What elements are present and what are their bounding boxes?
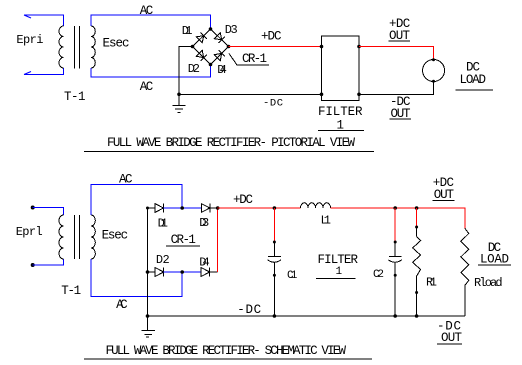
DC load circle [423,60,445,82]
wire: primary bottom lead [24,68,63,75]
wire: -DC bus to filter [179,93,322,95]
node: +DC junction at bridge output [216,206,220,210]
wire: left bus connecting rows down to ground [147,208,149,316]
node: C1 top junction [273,206,277,210]
node: filter input + [320,45,324,49]
svg-text:OUT: OUT [434,188,455,202]
svg-text:D1: D1 [158,217,168,231]
underline OUT bottom-right [437,343,462,345]
svg-text:FILTER: FILTER [318,105,363,119]
node: bridge bottom corner [209,63,213,67]
svg-text:CR-1: CR-1 [171,233,196,247]
leader line for CR-1 [229,54,269,66]
diode D1 bottom-section [155,204,164,213]
node: bridge top corner [209,27,213,31]
svg-text:D4: D4 [199,256,210,270]
svg-text:Epri: Epri [16,33,43,47]
node: row1 AC junction [180,206,184,210]
wire: +DC out red to load [359,47,434,60]
wire: row2 cathode lead [210,271,218,273]
node: bridge right corner [227,45,231,49]
transformer T-1 primary winding [59,26,63,68]
underline OUT top [389,40,411,42]
node: C2 bottom junction [393,314,397,318]
filter box [322,36,360,101]
node: primary bottom terminal dot [31,263,35,267]
svg-text:OUT: OUT [441,331,462,345]
diode D1 (left corner to top corner) [196,32,206,43]
underline CR-1 [166,245,200,247]
svg-text:C2: C2 [373,269,384,281]
svg-text:R1: R1 [426,276,437,290]
underline OUT bottom [390,118,412,120]
wire: primary top lead [24,15,63,26]
capacitor C2 [394,208,396,242]
wire: row2 anode lead [148,271,156,273]
transformer T-1 primary winding bottom [59,215,63,259]
wire: AC bottom from secondary to bridge [91,65,211,78]
diode D3 bottom-section [201,204,210,213]
svg-text:FULL WAVE BRIDGE RECTIFIER- PI: FULL WAVE BRIDGE RECTIFIER- PICTORIAL VI… [107,136,355,150]
node: ground junction [177,93,181,97]
wire: +DC rail to L1 [218,207,301,209]
svg-text:Esec: Esec [102,229,129,243]
svg-text:AC: AC [116,298,128,312]
wire: AC bottom to bridge row 2 [91,259,182,297]
svg-text:FULL WAVE BRIDGE RECTIFIER- SC: FULL WAVE BRIDGE RECTIFIER- SCHEMATIC VI… [106,344,347,358]
svg-text:C1: C1 [287,270,298,282]
wire: primary top lead [33,208,64,216]
node: load top [432,58,435,61]
wire: -DC out to load [359,82,434,95]
svg-text:AC: AC [140,4,154,18]
svg-text:FILTER: FILTER [318,253,359,267]
svg-text:D4: D4 [217,63,227,77]
wire: blue AC node row1 [164,207,202,209]
underline OUT [433,200,455,202]
svg-text:D2: D2 [188,62,200,76]
node: primary top terminal dot [31,206,35,210]
transformer T-1 core [73,26,75,69]
node: C2 top junction [393,206,397,210]
wire: red link row2 to row1 [217,208,219,272]
svg-text:Esec: Esec [103,37,130,51]
svg-text:LOAD: LOAD [460,73,487,87]
diode D2 (left corner to bottom corner) [196,50,206,60]
node: filter output + [357,45,361,49]
svg-text:+DC: +DC [233,193,253,207]
title bottom underline [84,358,372,360]
svg-text:Rload: Rload [474,276,503,290]
wire: primary bottom lead [33,259,64,265]
underline DC LOAD [456,89,494,91]
node: row2 left junction [146,270,150,274]
bridge rectifier CR-1 diamond [193,29,229,65]
title top underline [84,150,374,152]
node: R1 bottom junction [415,314,419,318]
svg-text:+DC: +DC [261,30,282,44]
svg-text:LOAD: LOAD [480,253,509,267]
diode D4 (bottom corner to right corner) [214,50,225,61]
svg-text:-DC: -DC [237,303,261,317]
ground symbol bottom section [142,316,156,337]
node: filter output - [357,93,361,97]
ground symbol top section [173,94,186,112]
underline filter 1 [318,129,364,131]
diode D4 bottom-section [201,268,210,277]
svg-text:D1: D1 [182,24,193,38]
wire: +DC red from bridge to filter [229,46,322,48]
arrow: primary top terminal [24,15,31,18]
svg-text:CR-1: CR-1 [242,52,267,66]
node: ground junction bottom [146,314,150,318]
svg-text:1: 1 [336,266,343,278]
inductor L1 [301,203,331,208]
wire: blue AC node row2 [164,271,202,273]
wire: AC top to bridge row 1 [91,185,182,216]
svg-text:D3: D3 [225,23,238,37]
svg-text:AC: AC [119,173,133,187]
resistor R1 [416,208,418,227]
node: bridge left corner [191,45,195,49]
svg-text:L1: L1 [321,214,332,228]
diode D3 (top corner to right corner) [214,33,224,44]
svg-text:T-1: T-1 [64,90,86,104]
resistor Rload [461,228,469,285]
svg-text:Eprl: Eprl [16,225,43,239]
wire: row1 anode lead [148,207,156,209]
underline filter bottom [316,278,356,280]
node: row2 AC junction [180,270,184,274]
wire: bridge left corner to ground bus [179,47,193,95]
node: C1 bottom junction [273,314,277,318]
capacitor C1 [273,208,275,242]
transformer T-1 core bottom [73,215,75,259]
svg-text:D3: D3 [199,216,209,230]
node: load bottom [432,80,435,83]
node: filter input - [320,93,324,97]
wire: row1 cathode lead [210,207,218,209]
node: R1 top junction [415,206,419,210]
svg-text:T-1: T-1 [61,284,81,298]
node: row1 left end [146,207,149,210]
wire: -DC rail bottom-section [148,315,465,317]
wire: AC top from secondary to bridge [91,15,211,29]
underline DC LOAD bottom [478,264,511,266]
svg-text:AC: AC [140,80,154,94]
svg-text:D2: D2 [156,253,170,267]
diode D2 bottom-section [155,268,164,277]
svg-text:-DC: -DC [263,97,283,109]
transformer T-1 secondary winding bottom [91,215,95,259]
arrow: primary bottom terminal [24,72,31,75]
wire: +DC rail from L1 to load [331,208,465,228]
transformer T-1 secondary winding [91,26,95,68]
